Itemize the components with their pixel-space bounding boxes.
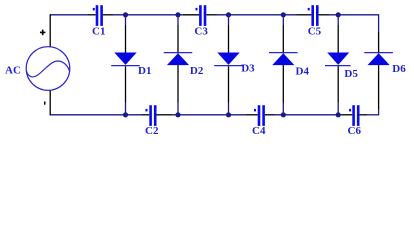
D4 reference label xyxy=(296,65,310,77)
C1 value label xyxy=(92,25,105,37)
node top rail D5 junction xyxy=(336,12,341,17)
wire C2 left lead xyxy=(141,114,149,116)
plus terminal label xyxy=(40,30,45,36)
wire C4 right lead xyxy=(265,114,275,116)
wire C3 right lead xyxy=(206,14,216,16)
wire D3 branch lower xyxy=(228,66,230,115)
D3 reference label xyxy=(241,63,255,75)
node bottom rail D3 junction xyxy=(226,112,231,117)
node top rail D3 junction xyxy=(226,12,231,17)
svg-text:C4: C4 xyxy=(252,125,266,137)
wire D1 branch lower xyxy=(125,66,127,115)
wire top rail right segment xyxy=(329,14,379,16)
wire D5 branch lower xyxy=(337,66,339,115)
wire D3 branch upper xyxy=(228,15,230,53)
C4 value label xyxy=(252,125,266,137)
C6 value label xyxy=(348,125,362,137)
wire top rail left segment xyxy=(50,14,87,16)
AC label xyxy=(5,65,21,77)
wire C2 right lead xyxy=(157,114,173,116)
D2 reference label xyxy=(190,65,204,77)
svg-text:D6: D6 xyxy=(392,63,406,75)
wire top rail node3 to node4 xyxy=(217,14,297,16)
svg-text:D1: D1 xyxy=(138,65,151,77)
svg-text:C3: C3 xyxy=(194,25,208,37)
svg-text:D5: D5 xyxy=(344,68,358,80)
wire C5 right lead xyxy=(319,14,329,16)
node bottom rail D2 junction xyxy=(175,112,180,117)
minus terminal label xyxy=(44,102,46,105)
wire D2 branch lower xyxy=(177,65,179,115)
wire D4 branch lower xyxy=(282,65,284,115)
svg-text:D4: D4 xyxy=(296,65,310,77)
wire right edge upper xyxy=(378,14,380,53)
node top rail D1 junction xyxy=(123,12,128,17)
D6 reference label xyxy=(392,63,406,75)
diode D1 xyxy=(111,53,140,66)
capacitor C2 xyxy=(146,105,157,126)
wire bottom rail right segment xyxy=(367,114,379,116)
wire D5 branch upper xyxy=(337,15,339,53)
capacitor C1 xyxy=(93,5,103,26)
diode D4 xyxy=(269,53,298,66)
svg-text:C1: C1 xyxy=(92,25,105,37)
node top rail D2 junction xyxy=(175,12,180,17)
wire bottom rail node4 to C6 xyxy=(275,114,342,116)
capacitor C3 xyxy=(196,5,207,26)
svg-text:C2: C2 xyxy=(145,125,159,137)
wire right edge lower xyxy=(378,65,380,115)
C5 value label xyxy=(308,25,322,37)
wire AC source bottom lead xyxy=(49,90,51,115)
diode D5 xyxy=(325,53,351,66)
svg-text:C5: C5 xyxy=(308,25,322,37)
wire D2 branch upper xyxy=(177,15,179,54)
wire C5 left lead xyxy=(297,14,312,16)
AC source V1 xyxy=(26,47,70,91)
wire D4 branch upper xyxy=(282,15,284,54)
wire C6 left lead xyxy=(342,114,353,116)
svg-text:AC: AC xyxy=(5,65,21,77)
wire C4 left lead xyxy=(246,114,258,116)
capacitor C5 xyxy=(308,5,319,26)
D1 reference label xyxy=(138,65,151,77)
wire D1 branch upper xyxy=(125,15,127,53)
svg-text:C6: C6 xyxy=(348,125,362,137)
wire bottom rail left segment xyxy=(50,114,141,116)
diode D2 xyxy=(164,53,193,66)
svg-text:D3: D3 xyxy=(241,63,255,75)
C2 value label xyxy=(145,125,159,137)
wire C1 right lead xyxy=(103,14,113,16)
diode D3 xyxy=(214,53,243,66)
wire bottom rail node2 to node4 xyxy=(172,114,246,116)
node bottom rail D1 junction xyxy=(123,112,128,117)
node bottom rail D4 junction xyxy=(281,112,286,117)
diode D6 xyxy=(364,53,393,66)
svg-text:D2: D2 xyxy=(190,65,204,77)
wire C1 left lead xyxy=(88,14,96,16)
wire C6 right lead xyxy=(360,114,368,116)
node top rail D4 junction xyxy=(281,12,286,17)
capacitor C4 xyxy=(254,105,265,126)
wire top rail node1 to node2 xyxy=(113,14,183,16)
node bottom rail D5 junction xyxy=(336,112,341,117)
D5 reference label xyxy=(344,68,358,80)
capacitor C6 xyxy=(349,105,359,126)
wire C3 left lead xyxy=(183,14,199,16)
wire AC source top lead xyxy=(49,14,51,46)
C3 value label xyxy=(194,25,208,37)
